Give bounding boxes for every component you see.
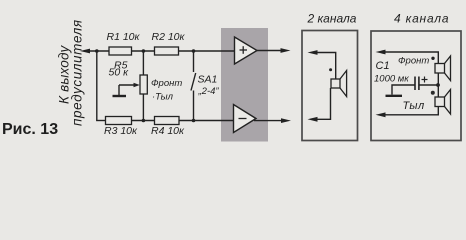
switch SA1 [191,51,219,121]
shaded amplifier panel [221,28,268,142]
node box2 [329,68,332,71]
ground (C1) [386,95,403,97]
arrow into box2 top [308,50,318,55]
node input top junction [95,49,99,53]
arrow bottom output [281,118,291,123]
wire cap to ground [392,85,415,95]
svg-text:SA1: SA1 [198,74,218,86]
svg-text:R2 10к: R2 10к [152,31,186,43]
wire R3-R4 [132,120,155,122]
svg-text:50 к: 50 к [109,67,130,79]
svg-text:2 канала: 2 канала [307,12,357,26]
capacitor C1 [374,60,438,90]
node SA1 bottom [192,119,196,123]
potentiometer R5 [109,51,148,121]
wire top input [87,50,109,52]
wire speakers vertical [437,73,439,97]
box 4 channels [371,31,461,141]
svg-text:Фронт: Фронт [151,78,182,89]
node cap junction [436,83,440,87]
wire left vertical [96,51,98,121]
op-amp U2 (-) [234,105,257,133]
node after Фронт [431,57,434,60]
label К выходу предусилителя (rotated) [57,19,85,126]
speaker rear [435,90,451,115]
svg-text:Тыл: Тыл [403,100,425,112]
node pot bottom [142,119,146,123]
wire op-amp top output [257,50,283,52]
wire R4 to op-amp [179,120,234,122]
op-amp U1 (+) [235,37,258,64]
svg-text:предусилителя: предусилителя [70,19,85,126]
resistor R4 [151,117,185,138]
svg-text:R4 10к: R4 10к [151,125,185,137]
svg-text:R3 10к: R3 10к [104,125,138,137]
wiper of R5 [119,83,140,95]
node pot top [142,49,146,53]
svg-text:„2-4”: „2-4” [198,86,220,97]
wire bottom from corner [96,120,105,122]
resistor R2 [152,31,186,55]
arrow into box4 bottom [376,112,386,117]
arrow top output [281,48,291,53]
svg-text:С1: С1 [376,60,390,72]
wire box2 bottom [314,88,331,119]
arrow to preamp output [80,49,90,54]
wire box4 bottom [384,107,438,115]
svg-text:Фронт: Фронт [398,55,429,66]
speaker front [435,56,451,81]
svg-text:4 канала: 4 канала [394,12,449,26]
wire box2 top [314,53,336,80]
ground (wiper) [113,95,127,97]
wire op-amp bottom output [254,120,283,122]
arrow into box2 bottom [308,117,318,122]
resistor R3 [104,117,138,138]
node SA1 top [192,49,196,53]
ink blob [431,91,435,95]
arrow into box4 top [376,50,386,55]
wire R1-R2 [132,50,155,52]
resistor R1 [107,31,141,55]
svg-text:Рис. 13: Рис. 13 [2,121,58,138]
speaker BA (2 канала) [331,71,347,97]
wire box4 top [382,52,438,64]
svg-text:1000 мк: 1000 мк [374,74,409,85]
svg-text:R1 10к: R1 10к [107,31,141,43]
box 2 channels [302,31,358,141]
wire R2 to op-amp [179,50,235,52]
svg-text:·Тыл: ·Тыл [152,91,174,102]
